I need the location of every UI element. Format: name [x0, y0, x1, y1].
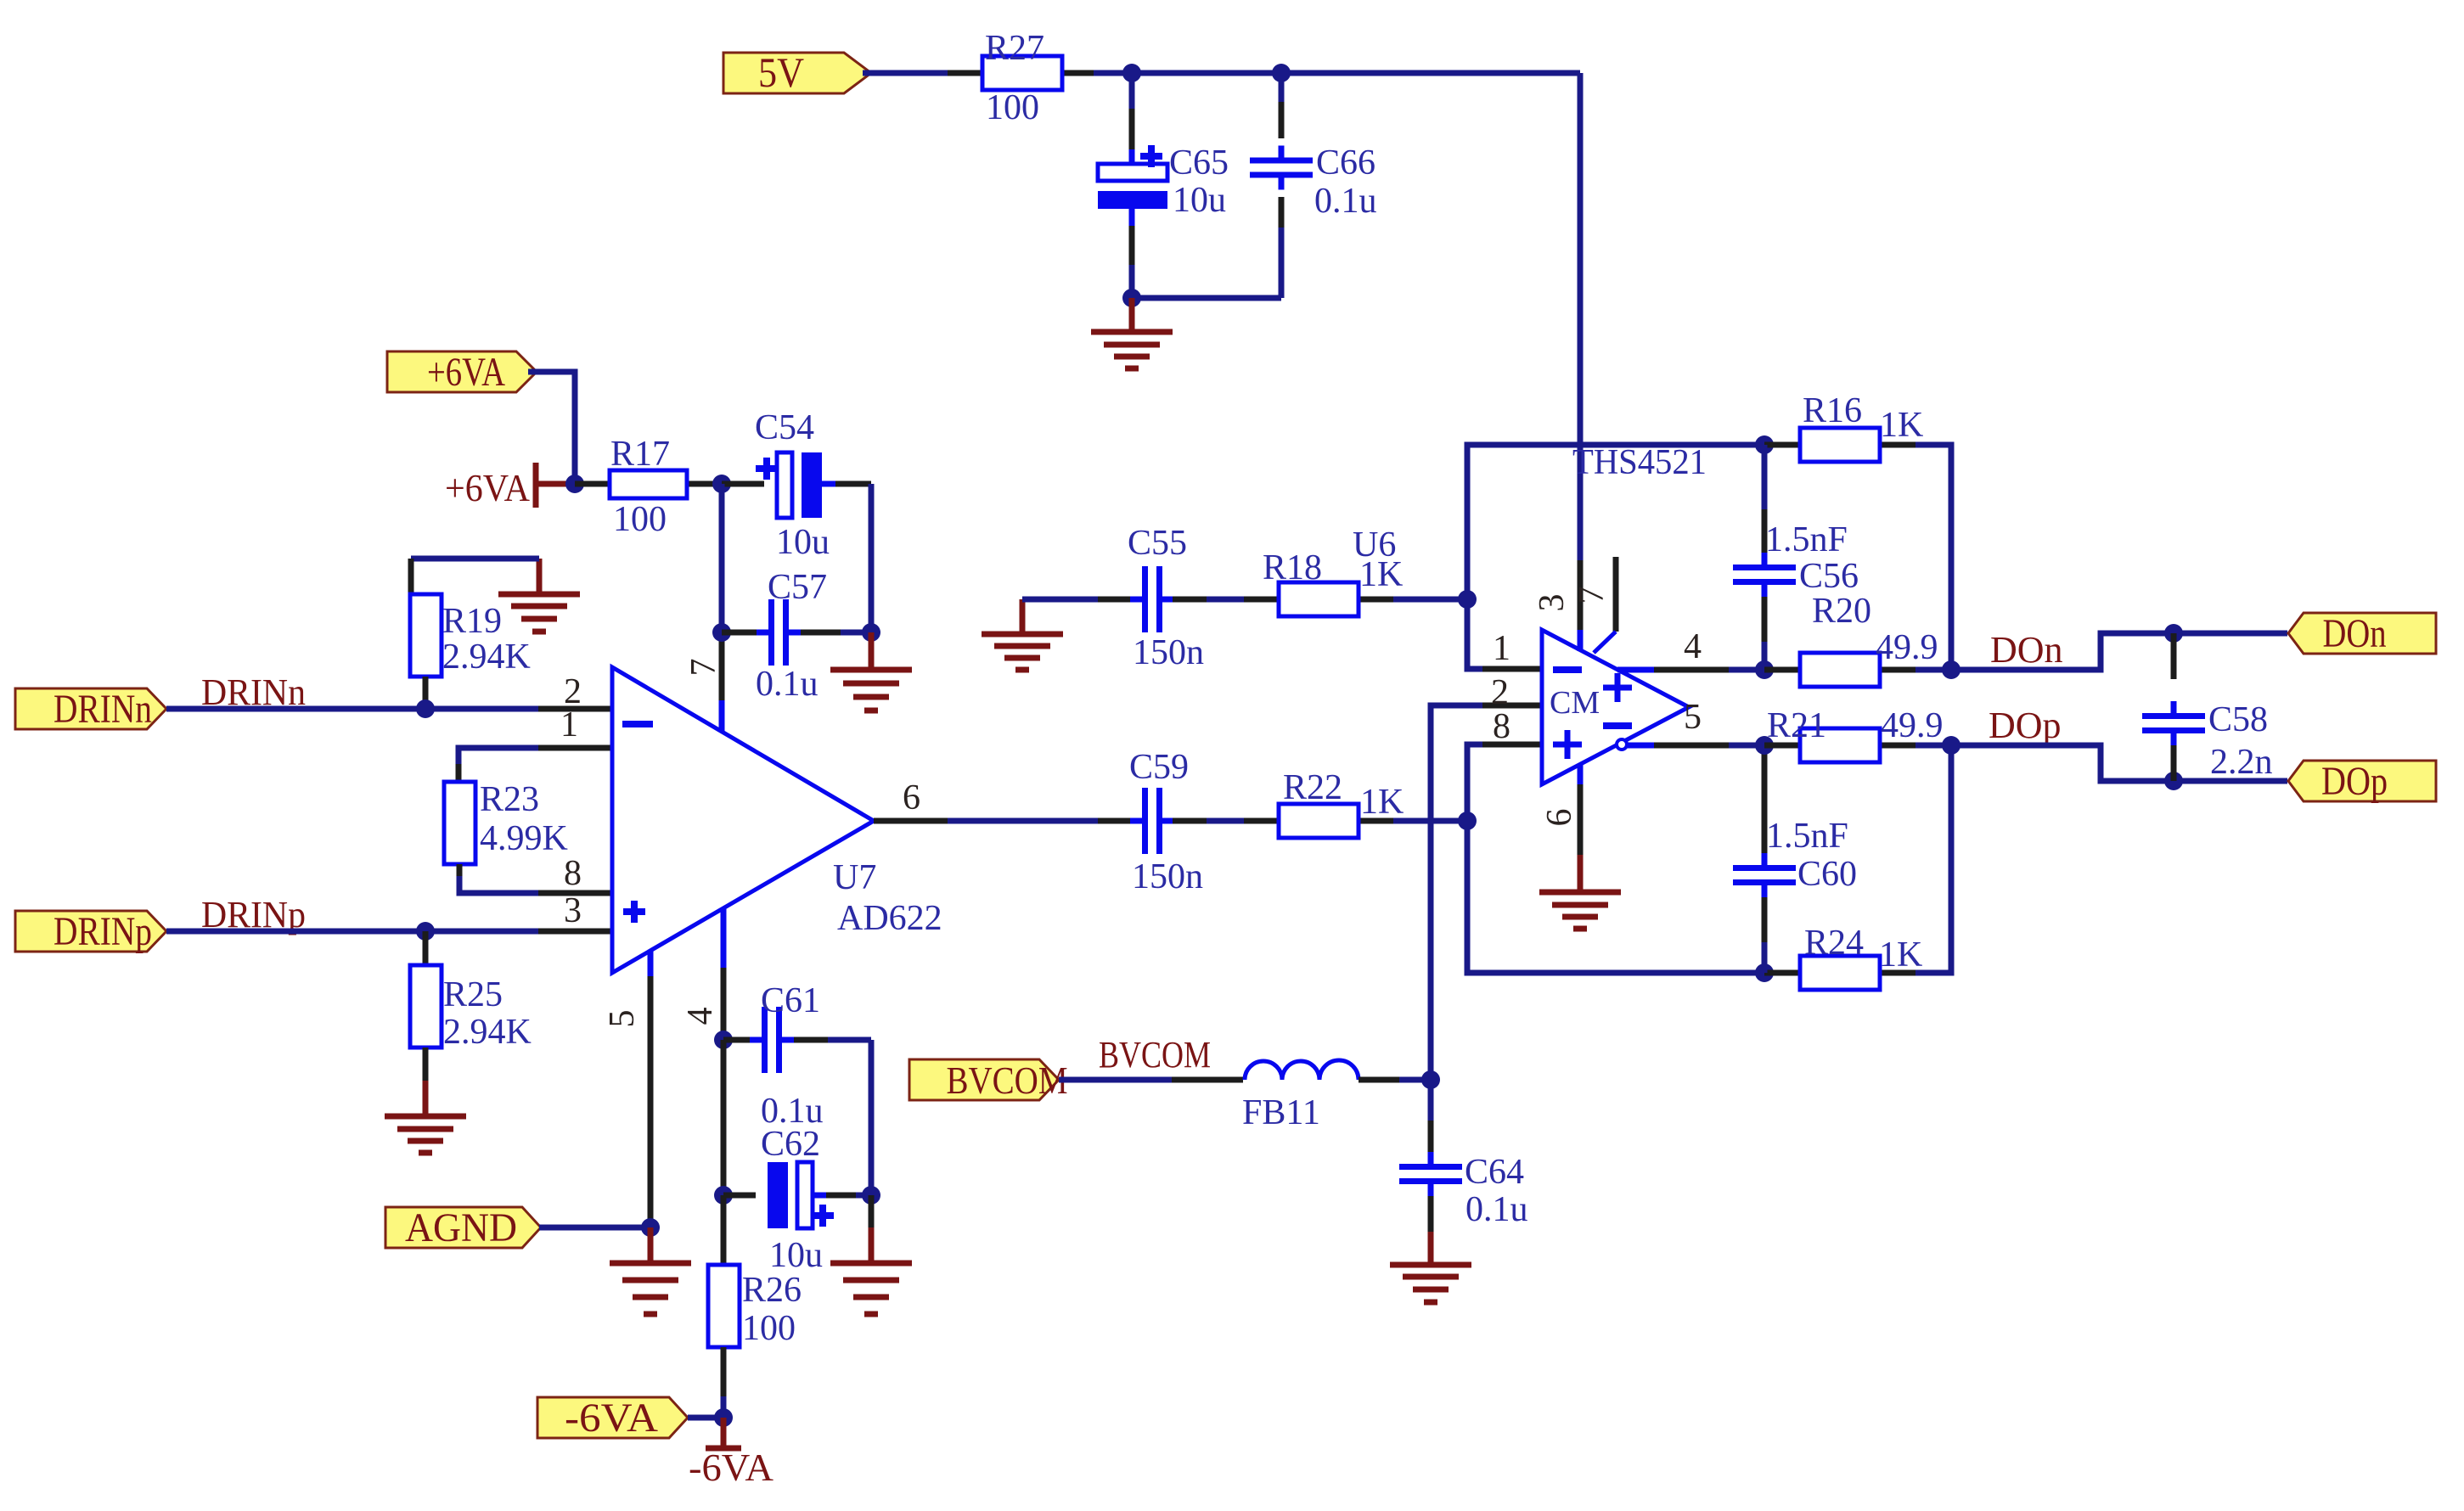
svg-text:+6VA: +6VA [445, 466, 530, 509]
svg-text:1K: 1K [1880, 406, 1923, 445]
svg-text:4: 4 [1684, 627, 1702, 666]
resistor R20 (49.9) [1764, 592, 1938, 687]
svg-text:-6VA: -6VA [565, 1396, 658, 1441]
port flag DRINp [15, 909, 166, 954]
wire R17 node down to C57 and U7 pin 7 [719, 484, 725, 732]
svg-text:C58: C58 [2208, 700, 2268, 739]
junction at R27 output / C65 [1122, 64, 1141, 82]
svg-text:49.9: 49.9 [1881, 706, 1944, 745]
junction DRINn / R19 [416, 699, 435, 718]
junction C62 left [714, 1186, 733, 1205]
pin number 5 U6 [1684, 698, 1702, 737]
svg-text:C65: C65 [1169, 143, 1229, 183]
svg-text:0.1u: 0.1u [1465, 1190, 1528, 1229]
wire R18 to U6 pin 1 vertical [1393, 597, 1467, 603]
svg-text:R20: R20 [1812, 592, 1871, 631]
ground left of C55 [982, 599, 1063, 670]
wire DOp to flag [1916, 745, 2287, 781]
junction C57 left [712, 623, 731, 642]
wire DRINp to U7 pin 3 [166, 929, 612, 935]
pin 7 label U7 [684, 659, 723, 677]
pin number 3 U7 [564, 891, 582, 930]
wire IN+ net: pin 8 corner down to bottom rail [1467, 744, 1764, 973]
svg-text:1: 1 [560, 705, 578, 744]
capacitor C58 (2.2n) [2142, 633, 2273, 782]
wire R24 right up to pin 5 row [1916, 745, 1951, 973]
port flag DRINn [15, 687, 166, 732]
svg-text:DOn: DOn [2323, 611, 2387, 656]
svg-text:4.99K: 4.99K [480, 819, 568, 858]
resistor R24 (1K) [1764, 924, 1922, 990]
svg-text:C60: C60 [1797, 855, 1857, 894]
junction at C66 top [1272, 64, 1291, 82]
ground below R25 [385, 1081, 466, 1153]
svg-text:2.2n: 2.2n [2210, 743, 2273, 782]
net label DOp [1989, 705, 2062, 746]
svg-text:FB11: FB11 [1242, 1093, 1320, 1132]
wire ground to C55 [1022, 597, 1098, 603]
ground below AGND node [610, 1227, 691, 1314]
svg-text:8: 8 [1493, 707, 1510, 746]
svg-text:AD622: AD622 [837, 899, 942, 938]
svg-text:1: 1 [1493, 629, 1510, 668]
svg-text:100: 100 [986, 88, 1039, 127]
pin 7 U6 (NC stub) [1594, 557, 1616, 653]
svg-text:U6: U6 [1353, 525, 1396, 565]
svg-text:10u: 10u [776, 523, 830, 562]
svg-text:DOn: DOn [1990, 629, 2063, 671]
svg-text:10u: 10u [1173, 181, 1226, 220]
port flag DOn [2288, 611, 2436, 656]
pin number 4 U6 [1684, 627, 1702, 666]
svg-text:1K: 1K [1879, 935, 1922, 975]
wire R27 to 5V rail corner down to U6 pin 3 [1094, 73, 1580, 651]
svg-text:R21: R21 [1767, 706, 1826, 745]
pin number 4 U7 [681, 1008, 720, 1025]
svg-text:4: 4 [681, 1008, 720, 1025]
wire BVCOM to FB11 [1059, 1077, 1243, 1083]
svg-text:R23: R23 [480, 780, 539, 819]
pin 4 of U7 down to C61 [721, 907, 727, 1040]
svg-text:BVCOM: BVCOM [947, 1059, 1068, 1102]
pin 5 of U7 down to AGND [648, 951, 654, 1227]
pin number 7 U6 [1572, 587, 1612, 604]
wire C61 right down to C62 [869, 1040, 875, 1195]
pin number 8 U6 [1493, 707, 1510, 746]
svg-text:C62: C62 [761, 1125, 820, 1164]
svg-text:DRINn: DRINn [53, 687, 152, 732]
capacitor C65 (10u electrolytic) [1098, 73, 1229, 298]
svg-text:3: 3 [564, 891, 582, 930]
capacitor C59 (150n) [1098, 748, 1244, 896]
resistor R17 [575, 435, 722, 539]
port flag BVCOM [909, 1059, 1068, 1102]
svg-text:100: 100 [742, 1309, 796, 1348]
junction R18 / IN- net [1458, 590, 1477, 609]
net label BVCOM [1099, 1034, 1211, 1076]
op-amp U7 AD622 triangle [612, 667, 942, 973]
svg-text:R19: R19 [442, 602, 502, 641]
pin number 1 U6 [1493, 629, 1510, 668]
svg-text:U7: U7 [833, 858, 876, 897]
junction top rail / C56 [1755, 435, 1774, 454]
svg-text:7: 7 [1572, 587, 1612, 604]
svg-text:1K: 1K [1360, 783, 1404, 822]
svg-text:R27: R27 [985, 29, 1044, 68]
junction -6VA [714, 1408, 733, 1427]
capacitor C57 (0.1u) [722, 568, 871, 704]
resistor R25 (2.94K) [410, 931, 532, 1081]
junction C57 right [862, 623, 880, 642]
junction pin4 / C61 [714, 1031, 733, 1049]
svg-text:DOp: DOp [1989, 705, 2062, 746]
junction +6VA node [565, 475, 584, 493]
pin number 6 U6 [1540, 809, 1579, 827]
port flag DOp [2288, 759, 2436, 804]
svg-text:R26: R26 [742, 1271, 802, 1310]
junction C62 right [862, 1186, 880, 1205]
wire DRINn to U7 pin 2 [166, 706, 612, 712]
junction R22 / IN+ net [1458, 812, 1477, 830]
junction pin 4 row / C56 bottom [1755, 660, 1774, 679]
svg-text:1.5nF: 1.5nF [1766, 817, 1848, 856]
svg-text:BVCOM: BVCOM [1099, 1034, 1211, 1076]
wire U7 pin 1 to R23 top [458, 748, 612, 782]
designator U6 [1353, 525, 1396, 565]
svg-text:C56: C56 [1799, 557, 1859, 596]
junction DRINp / R25 [416, 922, 435, 941]
svg-text:C54: C54 [755, 408, 814, 447]
svg-text:C59: C59 [1129, 748, 1189, 787]
pin 4 lead U6 [1617, 667, 1764, 673]
svg-text:R18: R18 [1263, 548, 1322, 587]
capacitor C55 (150n) [1098, 524, 1244, 672]
svg-text:R24: R24 [1804, 924, 1864, 963]
junction C58 top [2164, 624, 2183, 643]
wire C66 bottom to C65 bottom [1132, 295, 1281, 301]
capacitor C56 (1.5nF) [1733, 445, 1859, 670]
svg-text:100: 100 [613, 500, 667, 539]
resistor R21 (49.9) [1764, 706, 1944, 762]
resistor R19 (2.94K) [410, 594, 531, 709]
ferrite bead FB11 [1242, 1060, 1359, 1132]
svg-text:1.5nF: 1.5nF [1765, 520, 1848, 559]
capacitor C64 (0.1u) [1399, 1080, 1528, 1232]
junction R17 output [712, 475, 731, 493]
capacitor C66 (0.1u) [1250, 73, 1377, 298]
svg-text:0.1u: 0.1u [1314, 182, 1377, 221]
svg-text:C64: C64 [1465, 1153, 1524, 1192]
junction AGND [641, 1218, 660, 1237]
ground below C62 [830, 1195, 912, 1314]
svg-text:C57: C57 [768, 568, 827, 607]
capacitor C54 (10u electrolytic) [722, 408, 871, 562]
svg-text:49.9: 49.9 [1876, 628, 1938, 667]
port flag AGND [385, 1205, 541, 1250]
svg-text:-6VA: -6VA [689, 1446, 774, 1489]
svg-text:6: 6 [1540, 809, 1579, 827]
junction C58 bottom [2164, 772, 2183, 790]
wire -6VA flag to R26 [688, 1415, 723, 1421]
net label DRINn [201, 671, 306, 713]
svg-text:2.94K: 2.94K [443, 1013, 532, 1052]
ground above R19 [498, 559, 580, 632]
svg-text:R25: R25 [443, 975, 503, 1014]
resistor R16 (1K) [1764, 391, 1923, 462]
wire CM: BVCOM vertical to pin 2 [1431, 705, 1542, 1080]
svg-text:DOp: DOp [2321, 759, 2388, 804]
junction R20 out / R16 feedback [1942, 660, 1961, 679]
resistor R27 [948, 29, 1094, 127]
svg-text:+6VA: +6VA [427, 350, 505, 395]
wire FB11 to CM node [1359, 1077, 1431, 1083]
pin 6 U6 to ground [1578, 764, 1584, 855]
designator THS4521 [1572, 443, 1707, 482]
power flag 5V [723, 48, 871, 96]
wire IN- net: top rail corner to pin 1 [1467, 445, 1764, 669]
wire R16 right down to pin 4 row [1916, 445, 1951, 670]
resistor R18 (1K) [1244, 548, 1403, 616]
junction bottom rail / C60 [1755, 963, 1774, 982]
pin 6 label U7 [903, 778, 920, 817]
svg-text:THS4521: THS4521 [1572, 443, 1707, 482]
svg-text:DRINp: DRINp [53, 909, 152, 954]
wire AGND to pin5 node [539, 1225, 650, 1231]
svg-text:6: 6 [903, 778, 920, 817]
wire C54 right down to C57 [869, 484, 875, 632]
svg-text:150n: 150n [1133, 633, 1204, 672]
resistor R26 (100) [708, 1195, 802, 1418]
svg-text:5: 5 [603, 1010, 642, 1028]
svg-text:3: 3 [1533, 594, 1572, 612]
svg-text:5V: 5V [758, 48, 804, 96]
ground below U6 pin 6 [1539, 855, 1621, 929]
svg-text:10u: 10u [769, 1236, 823, 1275]
capacitor C61 (0.1u) [723, 981, 871, 1131]
ground right of C57 [830, 632, 912, 711]
junction at C65 bottom [1122, 289, 1141, 307]
svg-text:2.94K: 2.94K [442, 638, 531, 677]
junction BVCOM / CM / C64 [1421, 1070, 1440, 1089]
svg-text:AGND: AGND [405, 1205, 517, 1250]
ground below C64 [1390, 1232, 1471, 1302]
ground below C65/C66 [1091, 298, 1173, 368]
capacitor C62 (10u electrolytic) [723, 1125, 871, 1275]
resistor R22 (1K) [1244, 768, 1404, 838]
net label DOn [1990, 629, 2063, 671]
svg-text:R17: R17 [610, 435, 670, 474]
svg-text:C61: C61 [761, 981, 820, 1020]
svg-text:5: 5 [1684, 698, 1702, 737]
power port +6VA (bar symbol) [445, 463, 575, 509]
junction R21 out / R24 feedback [1942, 736, 1961, 755]
net label DRINp [201, 894, 306, 935]
svg-text:C66: C66 [1316, 143, 1375, 183]
wire +6VA flag down to R17 [528, 372, 575, 484]
power port -6VA (bar symbol) [689, 1418, 774, 1489]
wire R19 top to ground [411, 559, 539, 594]
svg-text:0.1u: 0.1u [756, 665, 819, 704]
resistor R23 (4.99K) [444, 780, 568, 864]
op-amp U6 THS4521 triangle [1542, 630, 1689, 784]
pin number 1 U7 [560, 705, 578, 744]
capacitor C60 (1.5nF) [1733, 745, 1857, 973]
pin number 8 U7 [564, 854, 582, 893]
wire 5V flag to R27 [863, 70, 948, 76]
pin number 2 U7 [564, 672, 582, 711]
junction pin 5 row / C60 top [1755, 736, 1774, 755]
pin number 5 U7 [603, 1010, 642, 1028]
pin 5 lead U6 [1627, 743, 1764, 749]
svg-text:150n: 150n [1132, 857, 1203, 896]
svg-text:C55: C55 [1128, 524, 1187, 563]
svg-text:7: 7 [684, 659, 723, 677]
svg-text:R22: R22 [1283, 768, 1342, 807]
wire C61 node to C62 node [721, 1040, 727, 1195]
pin number 3 U6 [1533, 594, 1572, 612]
svg-text:8: 8 [564, 854, 582, 893]
pin number 2 U6 [1491, 673, 1509, 712]
svg-text:R16: R16 [1803, 391, 1862, 430]
power flag -6VA [537, 1396, 688, 1441]
wire DOn to flag [1916, 633, 2287, 670]
power flag +6VA [387, 350, 537, 395]
wire R22 to U6 pin 8 vertical [1393, 818, 1467, 824]
wire R23 bottom to U7 pin 8 [459, 864, 612, 893]
wire U7 pin 6 to C59 [874, 818, 1098, 824]
svg-text:CM: CM [1550, 685, 1600, 721]
